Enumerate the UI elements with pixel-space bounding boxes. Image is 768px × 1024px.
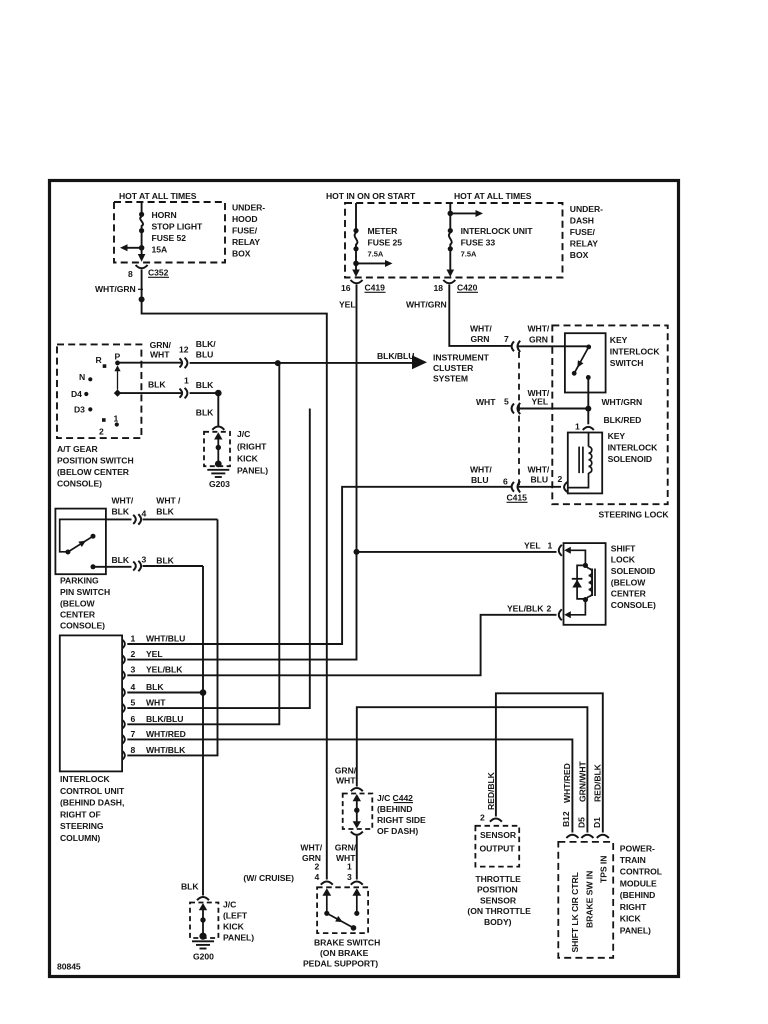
svg-text:HORN: HORN [152,210,177,220]
inline connector pin 12 (double arc) [180,358,183,367]
svg-text:BLK: BLK [181,882,199,892]
right arrow from fuse 25 [356,262,386,264]
male pin arrow inside C442 (up) [353,794,361,801]
inline connector pin 1 (double arc) [180,389,183,398]
parking pin switch pivot contact [65,550,70,555]
svg-text:PANEL): PANEL) [620,926,651,936]
right arrow from fuse 33 top [450,212,476,214]
connector chevron at solenoid pin 1 [583,427,594,430]
svg-text:(BEHIND: (BEHIND [620,890,655,900]
svg-text:BLK: BLK [148,380,166,390]
svg-text:SOLENOID: SOLENOID [608,454,652,464]
svg-text:7.5A: 7.5A [461,250,477,259]
svg-text:(BEHIND DASH,: (BEHIND DASH, [60,798,124,808]
svg-text:CONSOLE): CONSOLE) [611,600,656,610]
svg-text:HOT IN ON OR START: HOT IN ON OR START [326,191,416,201]
svg-text:3: 3 [131,665,136,675]
svg-text:YEL: YEL [532,397,549,407]
wire BLK/BLU down to ICU pin 6 [127,363,279,724]
J/C right kick panel box (dashed) [204,432,230,466]
svg-text:BLK: BLK [112,555,130,565]
connector cap at J/C left kick panel [197,897,209,900]
svg-text:KICK: KICK [620,914,642,924]
male pin arrow inside J/C G200 (up) [199,903,207,910]
svg-text:2: 2 [558,474,563,484]
junction dot on fuse 25 lead [353,261,359,267]
svg-text:1: 1 [114,414,119,424]
svg-text:CENTER: CENTER [60,610,96,620]
svg-text:P: P [115,351,121,361]
brake switch pin 4 male arrow (up) [322,888,331,896]
svg-text:CONSOLE): CONSOLE) [60,621,105,631]
svg-text:BLK/RED: BLK/RED [604,415,642,425]
connector cap at PCM D5 [581,835,593,838]
svg-text:2: 2 [547,604,552,614]
wire WHT/GRN from C420 to connector 7 [449,292,511,346]
svg-text:J/C C442: J/C C442 [377,793,413,803]
svg-text:PANEL): PANEL) [223,933,254,943]
wire BLK from parking pin switch pin 3 [93,565,203,568]
down arrow exiting under-dash box (meter) [352,270,360,278]
svg-text:INTERLOCK UNIT: INTERLOCK UNIT [461,226,534,236]
svg-text:GRN/: GRN/ [335,766,357,776]
wire BLK ICU pin 4 to junction [127,692,203,694]
wire WHT/BLK from parking pin switch pin 4 [106,518,218,520]
splice dot in J/C G200 [200,917,205,922]
svg-text:G200: G200 [193,952,214,962]
svg-text:J/C: J/C [237,429,250,439]
svg-text:RED/BLK: RED/BLK [593,763,603,802]
brake switch blade with arrow [327,913,354,928]
svg-text:UNDER-: UNDER- [570,204,603,214]
svg-text:(BELOW: (BELOW [611,578,646,588]
junction dot BLK [215,390,222,397]
shift solenoid coil branch [585,565,588,568]
svg-text:BLK: BLK [146,682,164,692]
svg-text:POSITION SWITCH: POSITION SWITCH [57,456,134,466]
svg-text:D3: D3 [74,405,85,415]
under-hood fuse/relay box (dashed) [114,202,225,263]
svg-text:SENSOR: SENSOR [480,895,517,905]
svg-text:WHT /: WHT / [156,496,181,506]
interlock control unit box [60,635,122,771]
svg-text:BRAKE SWITCH: BRAKE SWITCH [314,938,380,948]
wire WHT/GRN from C352 down and over to brake switch [142,299,327,879]
ground G200 symbol [199,933,206,940]
svg-text:WHT/BLU: WHT/BLU [146,634,185,644]
svg-text:KEY: KEY [608,431,626,441]
svg-text:WHT/: WHT/ [528,324,550,334]
svg-text:BODY): BODY) [484,917,512,927]
wire BLK down to ICU pin 4 junction and G200 [202,566,204,896]
svg-text:BLK/: BLK/ [196,339,217,349]
svg-text:WHT: WHT [336,776,356,786]
svg-text:1: 1 [184,376,189,386]
svg-text:5: 5 [504,397,509,407]
junction dot at top of fuse 33 [448,211,454,217]
svg-text:WHT/: WHT/ [470,324,492,334]
connector arc at shift solenoid pin 1 [559,545,562,556]
parking pin switch box [55,509,106,575]
svg-text:WHT/RED: WHT/RED [146,729,186,739]
svg-text:FUSE/: FUSE/ [570,227,596,237]
svg-text:WHT/: WHT/ [112,496,134,506]
svg-text:8: 8 [128,269,133,279]
down arrow exiting under-hood box [138,254,146,262]
svg-text:4: 4 [142,509,147,519]
svg-text:CENTER: CENTER [611,589,647,599]
svg-text:C415: C415 [507,493,528,503]
shift solenoid diode branch [577,565,585,599]
junction dot YEL branch [354,549,360,555]
svg-text:WHT/GRN: WHT/GRN [406,300,447,310]
connector cap at J/C right kick panel [212,427,224,430]
connector cap at brake switch pin 3 [351,881,363,884]
svg-text:BRAKE SW IN: BRAKE SW IN [585,871,595,928]
wire BLK from A/T switch to junction [118,392,182,394]
svg-text:(ON THROTTLE: (ON THROTTLE [467,906,531,916]
connector C415 dashed line [518,352,520,491]
brake switch box (dashed) [317,887,368,933]
connector C415 pin 5 (double arc) [512,404,514,414]
wire WHT/BLU pin6 to solenoid pin 2 [518,486,562,488]
svg-text:SOLENOID: SOLENOID [611,566,655,576]
svg-text:SYSTEM: SYSTEM [433,374,468,384]
key interlock switch contacts and blade [586,345,591,350]
svg-text:MODULE: MODULE [620,879,657,889]
svg-text:2: 2 [315,862,320,872]
svg-text:OF DASH): OF DASH) [377,826,418,836]
connector arc at shift solenoid pin 2 [559,609,562,620]
svg-text:FUSE 52: FUSE 52 [152,233,187,243]
wire YEL to shift lock solenoid pin 1 [357,551,557,553]
svg-text:D1: D1 [592,817,602,828]
fuse 33 INTERLOCK UNIT (element) [449,203,452,271]
svg-text:1: 1 [548,541,553,551]
svg-text:80845: 80845 [57,962,81,972]
svg-text:1: 1 [575,422,580,432]
A/T switch P contact (dot, wiper arrow, stem) [115,361,120,366]
svg-text:CONTROL: CONTROL [620,867,662,877]
svg-text:3: 3 [347,872,352,882]
brake switch contacts [324,911,329,916]
svg-text:KEY: KEY [610,335,628,345]
connector C415 pin 6 (double arc) [512,482,514,492]
svg-text:C352: C352 [148,268,169,278]
wire WHT/GRN from switch down to junction [587,377,589,408]
svg-text:BLU: BLU [531,475,549,485]
A/T switch position 2 marker [102,418,106,422]
svg-text:12: 12 [179,344,189,354]
svg-text:FUSE 33: FUSE 33 [461,238,496,248]
svg-text:RIGHT: RIGHT [620,902,647,912]
svg-text:BLK: BLK [156,507,174,517]
connector C352 (cup) [136,265,148,268]
svg-text:BLK: BLK [156,556,174,566]
svg-text:YEL: YEL [146,649,163,659]
ICU pin 6 connector arc [122,720,125,729]
svg-text:BLU: BLU [196,349,214,359]
svg-text:N: N [79,372,85,382]
connector C419 (cup) [351,280,363,283]
splice dot on WHT/GRN wire [139,296,145,302]
svg-text:(BELOW: (BELOW [60,599,95,609]
steering lock box (dashed) [552,325,667,504]
parking pin switch blade with arrow [68,536,93,552]
wire WHT from pin5 to junction [518,408,587,410]
svg-text:KICK: KICK [223,922,245,932]
down arrow exiting under-dash box (interlock) [447,270,455,278]
svg-text:B12: B12 [561,811,571,827]
svg-text:RIGHT OF: RIGHT OF [60,809,101,819]
svg-text:COLUMN): COLUMN) [60,833,100,843]
svg-text:BOX: BOX [570,250,589,260]
connector C420 (cup) [443,280,455,283]
svg-text:D5: D5 [577,817,587,828]
svg-text:METER: METER [368,226,399,236]
wire BLK/RED from junction to solenoid pin 1 [587,409,589,425]
svg-text:SHIFT LK CIR CTRL: SHIFT LK CIR CTRL [570,872,580,952]
svg-text:4: 4 [131,682,136,692]
svg-text:GRN/: GRN/ [335,843,357,853]
junction dot WHT/GRN-BLK/RED [585,406,591,412]
junction diamond on P output [114,389,121,396]
svg-text:YEL: YEL [339,300,356,310]
svg-text:BLK/BLU: BLK/BLU [377,351,414,361]
ICU pin 8 connector arc [122,751,125,760]
svg-text:GRN: GRN [529,335,548,345]
svg-text:UNDER-: UNDER- [232,203,265,213]
connector cap at PCM D1 [597,835,609,838]
svg-text:SENSOR: SENSOR [480,830,517,840]
svg-text:GRN: GRN [471,334,490,344]
svg-text:6: 6 [131,714,136,724]
male pin arrow inside J/C (up) [214,432,222,439]
J/C left kick panel box (dashed) [190,903,218,939]
svg-text:FUSE 25: FUSE 25 [368,238,403,248]
svg-text:7.5A: 7.5A [368,250,384,259]
J/C C442 box (dashed) [343,794,373,830]
svg-text:PANEL): PANEL) [237,466,268,476]
svg-text:CONSOLE): CONSOLE) [57,479,102,489]
svg-text:6: 6 [503,477,508,487]
parking pin switch lower contact [91,564,96,569]
svg-text:WHT/GRN: WHT/GRN [95,284,136,294]
svg-text:SHIFT: SHIFT [611,544,636,554]
svg-text:A/T GEAR: A/T GEAR [57,444,99,454]
wire GRN/WHT brake pin 3 through C442 up to PCM D5 [357,707,588,832]
wire WHT/BLU ICU pin 1 to C415 pin 6 [127,487,511,644]
connector cap at brake switch pin 4 [321,881,333,884]
wire WHT ICU pin 5 to C415 pin 5 [127,409,309,709]
svg-text:J/C: J/C [223,900,236,910]
key interlock switch box [565,333,606,392]
svg-text:2: 2 [131,649,136,659]
ICU pin 3 connector arc [122,671,125,680]
wire RED/BLK TPS to PCM D1 [496,693,603,832]
connector cup at J/C C442 bottom [351,832,363,835]
key interlock solenoid internal wire and coil [588,433,590,447]
splice dot in J/C [216,445,221,450]
svg-text:STEERING: STEERING [60,821,104,831]
svg-text:WHT/: WHT/ [470,465,492,475]
svg-text:PEDAL SUPPORT): PEDAL SUPPORT) [303,959,378,969]
svg-text:WHT: WHT [476,397,496,407]
svg-text:4: 4 [315,872,320,882]
connector cap at sensor output [490,818,502,821]
wire BLK/BLU to instrument cluster [190,362,413,364]
svg-text:RIGHT SIDE: RIGHT SIDE [377,815,426,825]
svg-text:18: 18 [434,283,444,293]
svg-text:YEL/BLK: YEL/BLK [146,665,183,675]
parking pin switch internal wire [60,519,106,551]
shift solenoid bottom splice dot [583,597,588,602]
svg-text:OUTPUT: OUTPUT [480,844,516,854]
svg-text:RELAY: RELAY [570,239,598,249]
sensor output box (dashed) [475,826,519,867]
svg-text:STOP LIGHT: STOP LIGHT [152,222,204,232]
splice dot in C442 [354,808,359,813]
svg-text:7: 7 [504,334,509,344]
svg-text:INTERLOCK: INTERLOCK [610,347,661,357]
inline connector pin 3 (double arc) [133,562,136,571]
svg-text:2: 2 [99,427,104,437]
svg-text:POWER-: POWER- [620,844,655,854]
under-dash fuse/relay box (dashed) [345,203,563,278]
svg-text:C420: C420 [457,283,478,293]
svg-text:WHT/: WHT/ [528,465,550,475]
svg-text:WHT/BLK: WHT/BLK [146,745,186,755]
svg-text:8: 8 [131,745,136,755]
ICU pin 7 connector arc [122,735,125,744]
svg-text:D4: D4 [71,389,82,399]
svg-text:3: 3 [142,555,147,565]
svg-text:HOOD: HOOD [232,214,258,224]
junction dot BLK at ICU pin 4 [200,689,207,696]
arrow into instrument cluster system [412,355,427,369]
wire BLK down to G203 [217,393,219,426]
wire GRN/WHT from P to connector 12 [118,362,182,364]
svg-text:1: 1 [131,634,136,644]
wire WHT/GRN pin7 to key interlock switch [518,345,589,347]
svg-text:WHT/GRN: WHT/GRN [602,397,643,407]
svg-text:HOT AT ALL TIMES: HOT AT ALL TIMES [119,191,197,201]
ICU pin 5 connector arc [122,704,125,713]
wire YEL continues down to ICU pin 2 [127,552,356,660]
svg-text:PARKING: PARKING [60,576,99,586]
svg-text:POSITION: POSITION [477,885,518,895]
ICU pin 2 connector arc [122,655,125,664]
wire YEL from C419 down to junction [356,292,358,552]
svg-text:C419: C419 [365,283,386,293]
svg-text:BLK: BLK [112,507,130,517]
svg-text:BLU: BLU [471,475,489,485]
powertrain control module box (dashed) [558,842,613,958]
connector chevron at solenoid pin 2 [564,482,567,492]
svg-text:GRN/WHT: GRN/WHT [577,760,587,802]
svg-text:BLK: BLK [196,380,214,390]
svg-text:YEL/BLK: YEL/BLK [507,604,544,614]
left arrow from fuse 52 [127,247,142,249]
shift solenoid pin 1 male arrow [564,547,571,554]
svg-text:WHT/: WHT/ [300,843,322,853]
svg-text:2: 2 [480,813,485,823]
A/T gear position switch box (dashed) [57,344,141,438]
svg-text:7: 7 [131,729,136,739]
svg-text:WHT/RED: WHT/RED [562,763,572,803]
svg-text:RED/BLK: RED/BLK [486,771,496,810]
shift solenoid top splice dot [583,563,588,568]
wire YEL/BLK from shift solenoid pin 2 to ICU pin 3 [127,615,556,676]
svg-text:BLK: BLK [196,408,214,418]
wire WHT/RED ICU pin 7 to PCM B12 [127,739,572,832]
svg-text:KICK: KICK [237,454,259,464]
svg-text:WHT: WHT [146,698,166,708]
ground G203 symbol [215,461,222,468]
svg-text:R: R [96,355,103,365]
svg-text:FUSE/: FUSE/ [232,226,258,236]
svg-text:5: 5 [131,698,136,708]
svg-text:BOX: BOX [232,249,251,259]
brake switch pin 3 male arrow (up) [352,888,361,896]
svg-text:TPS IN: TPS IN [598,856,608,883]
wire BLK to G203 drop [190,392,216,394]
svg-text:SWITCH: SWITCH [610,358,644,368]
svg-text:(W/ CRUISE): (W/ CRUISE) [243,873,294,883]
svg-text:RELAY: RELAY [232,237,260,247]
svg-text:INSTRUMENT: INSTRUMENT [433,353,490,363]
shift solenoid pin 2 wire and male arrow [570,600,585,615]
ICU pin 4 connector arc [122,688,125,697]
svg-text:CLUSTER: CLUSTER [433,363,474,373]
shift lock solenoid box [564,543,606,625]
svg-text:(LEFT: (LEFT [223,911,248,921]
svg-text:(BEHIND: (BEHIND [377,804,412,814]
svg-text:DASH: DASH [570,216,594,226]
svg-text:TRAIN: TRAIN [620,855,646,865]
svg-text:WHT: WHT [150,349,170,359]
svg-text:STEERING LOCK: STEERING LOCK [599,510,670,520]
svg-text:PIN SWITCH: PIN SWITCH [60,587,110,597]
svg-text:INTERLOCK: INTERLOCK [608,443,659,453]
svg-text:HOT AT ALL TIMES: HOT AT ALL TIMES [454,191,532,201]
svg-text:(BELOW CENTER: (BELOW CENTER [57,467,130,477]
svg-text:(RIGHT: (RIGHT [237,442,267,452]
junction dot BLK/BLU [275,360,281,366]
svg-text:THROTTLE: THROTTLE [475,874,521,884]
svg-text:15A: 15A [152,245,168,255]
svg-text:CONTROL UNIT: CONTROL UNIT [60,786,125,796]
svg-text:1: 1 [347,862,352,872]
wire WHT/BLK down to ICU pin 8 [127,519,217,755]
svg-text:(ON BRAKE: (ON BRAKE [320,948,369,958]
svg-text:INTERLOCK: INTERLOCK [60,774,111,784]
connector C415 pin 7 (double arc) [512,341,514,351]
svg-text:16: 16 [341,283,351,293]
svg-text:LOCK: LOCK [611,555,636,565]
svg-text:G203: G203 [209,479,230,489]
svg-text:BLK/BLU: BLK/BLU [146,714,183,724]
junction dot on fuse 52 lead [139,245,145,251]
fuse 25 METER (element) [355,203,358,271]
inline connector pin 4 (double arc) [133,515,136,524]
svg-text:YEL: YEL [524,541,541,551]
connector cap at PCM B12 [566,835,578,838]
outer border frame [50,181,679,977]
connector cap at J/C C442 top [351,788,363,791]
key interlock solenoid box [568,433,602,494]
male pin arrow inside C442 (down) [353,821,361,828]
